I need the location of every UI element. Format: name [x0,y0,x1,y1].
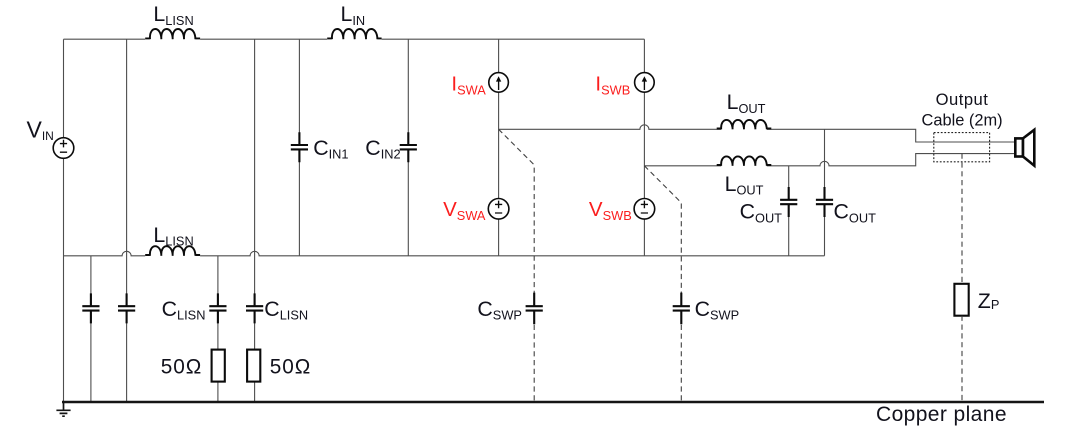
wire C_LISN branch 1 (x=217.9) [217,256,219,402]
capacitor (unlabeled, x=90.9) [82,293,99,323]
resistor 50ohm 1 [212,350,225,382]
wire V_IN branch (left vertical) [63,39,65,402]
svg-text:CLISN: CLISN [162,297,206,323]
dashed link node B to C_SWP 2 [644,166,681,293]
dashed link C_SWP 2 to copper plane [680,325,682,402]
svg-text:CIN1: CIN1 [313,136,348,162]
svg-text:COUT: COUT [834,200,877,226]
wire C_OUT branch 2 (x=824.5) [824,129,826,256]
dashed link cable to Z_P [961,154,963,284]
inductor L_IN [327,29,381,39]
svg-text:50Ω: 50Ω [161,356,202,379]
svg-text:LOUT: LOUT [725,172,764,198]
capacitor C_LISN 2 [246,293,263,323]
svg-text:Copper plane: Copper plane [876,403,1007,426]
capacitor C_SWP 2 [673,293,690,325]
wire C_IN1 branch (x=299.4) [298,39,300,256]
svg-text:CSWP: CSWP [695,297,740,323]
speaker load [1015,130,1034,166]
dotted box output cable [934,133,990,162]
capacitor (unlabeled, x=126.6) [118,293,135,323]
inductor L_OUT (upper) [717,120,772,129]
voltage source V_SWA [488,199,509,220]
inductor L_LISN (top) [145,29,200,39]
voltage source V_SWB [634,199,655,220]
capacitor C_IN2 [400,132,417,162]
svg-text:ISWB: ISWB [595,73,630,98]
wire switch node B to output (y=165.8, hops C_OUT2 branch) [644,154,1014,166]
wire phase A branch (x=498.6) [498,39,500,256]
wire mid rail (with hops over LISN taps) [64,251,825,256]
current source I_SWB [635,73,655,93]
svg-text:ZP: ZP [978,289,1000,313]
wire LISN tap 2 (x=254.6, hops mid rail) [254,39,256,402]
svg-text:VIN: VIN [27,117,54,144]
copper plane rail [62,401,1044,403]
wire phase B branch (x=644.4) [643,39,645,256]
svg-text:VSWB: VSWB [589,198,632,223]
ground symbol [56,402,70,416]
svg-text:CLISN: CLISN [264,297,308,323]
svg-text:Cable (2m): Cable (2m) [922,111,1003,129]
dashed link Z_P to copper plane [961,316,963,402]
svg-text:VSWA: VSWA [443,198,486,223]
capacitor C_OUT 2 [816,187,833,217]
svg-text:Output: Output [936,90,989,109]
impedance Z_P [954,284,968,316]
wire LISN tap 1 (x=126.6, hops mid rail) [126,39,128,402]
capacitor C_SWP 1 [526,293,543,325]
wire C_IN2 branch (x=408.3) [407,39,409,256]
svg-text:ISWA: ISWA [451,73,486,98]
svg-text:LIN: LIN [341,2,366,28]
resistor 50ohm 2 [247,350,260,382]
inductor L_LISN (mid rail) [145,246,200,256]
current source I_SWA [489,73,509,93]
inductor L_OUT (lower) [717,156,772,165]
dashed link node A to C_SWP 1 [499,129,535,293]
svg-text:LOUT: LOUT [727,90,766,116]
svg-text:50Ω: 50Ω [270,356,311,379]
dashed link C_SWP 1 to copper plane [533,325,535,402]
wire shunt cap branch (x=90.9) [90,256,92,402]
svg-text:LLISN: LLISN [153,2,193,28]
wire C_OUT branch 1 (x=788.7) [788,166,790,256]
capacitor C_OUT 1 [780,187,797,217]
capacitor C_LISN 1 [209,293,226,323]
svg-text:LLISN: LLISN [153,223,193,249]
capacitor C_IN1 [291,132,308,162]
wire switch node A to output (y=129.3, hops phase B) [499,125,1015,142]
voltage source V_IN [53,138,74,159]
svg-text:CSWP: CSWP [477,297,522,323]
svg-text:CIN2: CIN2 [365,136,400,162]
svg-text:COUT: COUT [740,200,783,226]
wire top rail [64,38,645,40]
